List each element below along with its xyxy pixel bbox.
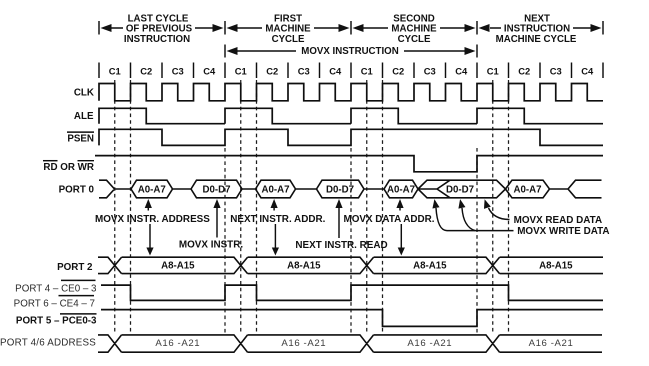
svg-text:C3: C3: [550, 66, 562, 77]
svg-text:FIRST: FIRST: [274, 13, 302, 24]
svg-text:C2: C2: [392, 66, 404, 77]
ALE waveform: [99, 108, 603, 123]
span arrow: LAST CYCLE OF PREVIOUS INSTRUCTION: [101, 24, 112, 32]
svg-text:A8-A15: A8-A15: [413, 261, 447, 272]
PORT 4/6 upper address bus: [98, 335, 602, 352]
svg-text:NEXT INSTR. READ: NEXT INSTR. READ: [295, 240, 387, 251]
svg-text:C1: C1: [487, 66, 499, 77]
svg-text:MOVX READ DATA: MOVX READ DATA: [514, 215, 603, 226]
svg-text:A8-A15: A8-A15: [287, 261, 321, 272]
svg-text:OF PREVIOUS: OF PREVIOUS: [126, 24, 193, 35]
PSEN waveform: [99, 129, 603, 145]
RD OR WR waveform: [95, 156, 603, 172]
svg-text:MACHINE CYCLE: MACHINE CYCLE: [496, 34, 577, 45]
svg-text:NEXT: NEXT: [524, 13, 550, 24]
svg-text:LAST CYCLE: LAST CYCLE: [128, 13, 189, 24]
svg-text:C1: C1: [361, 66, 373, 77]
svg-text:A16 -A21: A16 -A21: [407, 338, 452, 349]
svg-text:PORT 5 – PCE0-3: PORT 5 – PCE0-3: [16, 315, 97, 326]
svg-text:MACHINE: MACHINE: [265, 24, 311, 35]
curved pointers: MOVX READ DATA / MOVX WRITE DATA: [431, 198, 440, 208]
svg-text:MOVX INSTR. ADDRESS: MOVX INSTR. ADDRESS: [95, 214, 210, 225]
svg-text:PORT 4 – CE0 – 3: PORT 4 – CE0 – 3: [15, 283, 97, 294]
svg-text:A8-A15: A8-A15: [161, 261, 195, 272]
span arrow: FIRST MACHINE CYCLE: [227, 24, 238, 32]
svg-text:C4: C4: [329, 66, 342, 77]
svg-text:MOVX WRITE DATA: MOVX WRITE DATA: [517, 226, 609, 237]
svg-text:A16 -A21: A16 -A21: [155, 338, 200, 349]
svg-text:C2: C2: [140, 66, 152, 77]
svg-text:MOVX INSTR.: MOVX INSTR.: [179, 240, 243, 251]
CLK waveform: [99, 84, 603, 101]
svg-text:CYCLE: CYCLE: [272, 34, 305, 45]
svg-text:A0-A7: A0-A7: [138, 184, 166, 195]
svg-text:C3: C3: [298, 66, 310, 77]
svg-text:MOVX INSTRUCTION: MOVX INSTRUCTION: [301, 46, 398, 57]
top measurement bars at machine-cycle boundaries: [99, 21, 603, 35]
svg-text:C1: C1: [109, 66, 121, 77]
svg-text:C4: C4: [203, 66, 216, 77]
svg-text:INSTRUCTION: INSTRUCTION: [124, 34, 190, 45]
svg-text:A16 -A21: A16 -A21: [529, 338, 574, 349]
svg-text:A8-A15: A8-A15: [539, 261, 573, 272]
PORT 0 multiplexed bus: [99, 180, 602, 198]
svg-text:C1: C1: [235, 66, 247, 77]
svg-text:MACHINE: MACHINE: [391, 24, 437, 35]
CE0-3 / CE4-7 chip enable waveform: [101, 285, 603, 300]
svg-text:D0-D7: D0-D7: [203, 184, 231, 195]
svg-text:RD OR WR: RD OR WR: [43, 162, 94, 173]
span arrow: NEXT INSTRUCTION MACHINE CYCLE: [479, 24, 490, 32]
svg-text:CLK: CLK: [74, 87, 94, 98]
svg-text:C4: C4: [455, 66, 468, 77]
svg-text:INSTRUCTION: INSTRUCTION: [504, 24, 570, 35]
PCE0-3 waveform: [101, 310, 603, 327]
svg-text:PORT 2: PORT 2: [57, 262, 93, 273]
svg-text:A0-A7: A0-A7: [387, 184, 415, 195]
dashed cycle reference lines: [114, 80, 116, 333]
svg-text:C3: C3: [172, 66, 184, 77]
svg-text:SECOND: SECOND: [393, 13, 434, 24]
svg-text:PORT 0: PORT 0: [59, 184, 95, 195]
up arrows pointing at PORT0 bus values: [145, 199, 152, 208]
clock cycle tick marks: [99, 63, 603, 79]
PORT 2 address bus: [98, 257, 603, 273]
svg-text:A0-A7: A0-A7: [262, 184, 290, 195]
svg-text:D0-D7: D0-D7: [326, 184, 354, 195]
svg-text:D0-D7: D0-D7: [446, 184, 474, 195]
span arrow: SECOND MACHINE CYCLE: [353, 24, 364, 32]
svg-text:MOVX DATA ADDR.: MOVX DATA ADDR.: [343, 214, 434, 225]
svg-text:NEXT INSTR. ADDR.: NEXT INSTR. ADDR.: [230, 214, 325, 225]
MOVX INSTRUCTION span arrow: [225, 45, 477, 58]
svg-text:PSEN: PSEN: [67, 133, 94, 144]
svg-text:C2: C2: [518, 66, 530, 77]
svg-text:ALE: ALE: [74, 111, 94, 122]
svg-text:PORT 6 – CE4 – 7: PORT 6 – CE4 – 7: [14, 298, 95, 309]
svg-text:C2: C2: [266, 66, 278, 77]
svg-text:A16 -A21: A16 -A21: [281, 338, 326, 349]
svg-text:C4: C4: [581, 66, 594, 77]
svg-text:PORT 4/6 ADDRESS: PORT 4/6 ADDRESS: [0, 337, 96, 348]
svg-text:C3: C3: [424, 66, 436, 77]
svg-text:CYCLE: CYCLE: [398, 34, 431, 45]
svg-text:A0-A7: A0-A7: [514, 184, 542, 195]
down arrows pointing at PORT2 bus: [149, 224, 151, 248]
